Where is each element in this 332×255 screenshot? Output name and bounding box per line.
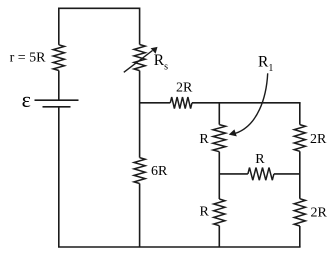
svg-text:2R: 2R: [311, 205, 328, 220]
svg-text:ε: ε: [22, 87, 31, 112]
wire middle horizontal right: [274, 173, 300, 175]
resistor 2R right bottom: [294, 199, 305, 226]
resistor R bottom: [214, 199, 225, 226]
wire right vertical mid: [299, 151, 301, 198]
resistor 2R horizontal: [170, 97, 192, 109]
wire branch left of 2R: [140, 102, 171, 104]
curved arrow R1 pointer: [229, 73, 268, 136]
wire top: [59, 7, 140, 9]
svg-text:2R: 2R: [310, 132, 327, 147]
svg-text:Rs: Rs: [154, 52, 168, 73]
svg-text:2R: 2R: [176, 80, 193, 95]
resistor R middle: [248, 168, 274, 181]
svg-text:r = 5R: r = 5R: [10, 50, 47, 65]
wire bottom: [58, 246, 301, 248]
battery E plates: [35, 100, 79, 107]
wire middle upper: [139, 8, 141, 45]
arrow through Rs: [124, 47, 158, 72]
resistor 6R: [134, 158, 145, 184]
svg-text:R1: R1: [258, 53, 273, 74]
svg-text:R: R: [255, 152, 265, 167]
wire left upper: [58, 8, 60, 45]
resistor R top: [213, 125, 226, 152]
svg-text:R: R: [200, 204, 210, 219]
svg-text:R: R: [199, 132, 209, 147]
wire mid vertical lower: [218, 226, 220, 247]
wire left mid: [58, 71, 60, 101]
wire middle horizontal left: [219, 173, 248, 175]
resistor 2R right top: [294, 125, 305, 152]
resistor Rs variable: [134, 45, 145, 71]
wire middle lower: [139, 184, 141, 248]
resistor r=5R: [53, 45, 64, 71]
wire right vertical lower: [299, 226, 301, 247]
wire middle mid: [139, 71, 141, 158]
wire right vertical top: [299, 103, 301, 125]
wire mid vertical segment: [218, 152, 220, 199]
wire left lower: [58, 107, 60, 247]
wire branch right of 2R: [192, 102, 301, 104]
wire node A down: [218, 103, 220, 125]
svg-text:6R: 6R: [151, 164, 168, 179]
